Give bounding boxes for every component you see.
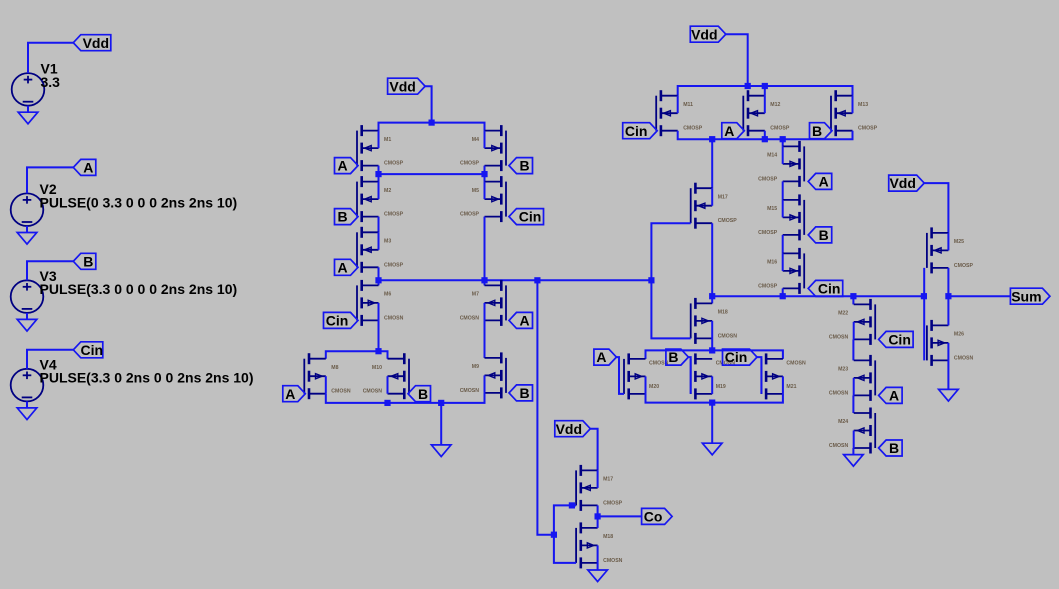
net label A: [335, 259, 359, 275]
transistor M18: [691, 298, 738, 344]
ground: [26, 226, 28, 233]
node mid m17: [709, 293, 715, 299]
svg-text:Cin: Cin: [725, 349, 748, 365]
transistor M6: [357, 280, 404, 326]
node vdd drop: [745, 83, 751, 89]
svg-text:M22: M22: [838, 311, 848, 317]
svg-text:CMOSP: CMOSP: [770, 126, 790, 132]
svg-text:M18: M18: [718, 310, 728, 316]
svg-text:B: B: [819, 227, 829, 243]
net label A: [594, 349, 617, 365]
wire trio top rail: [646, 350, 783, 359]
wire A to M20 gate: [616, 357, 624, 394]
wire lower rail: [678, 131, 853, 140]
node Vdd junction: [429, 120, 435, 126]
svg-text:M14: M14: [767, 153, 777, 159]
wire M7 source to M9: [484, 320, 486, 358]
svg-text:B: B: [889, 440, 899, 456]
svg-text:M2: M2: [384, 188, 391, 194]
transistor M7: [460, 280, 506, 326]
wire input down branch: [554, 535, 576, 563]
wire M18 drain: [711, 296, 713, 303]
net label B: [408, 386, 431, 402]
net label A: [722, 123, 745, 139]
wire right col drain: [852, 296, 854, 304]
wire M18 source: [711, 338, 713, 350]
transistor M17: [691, 183, 738, 229]
wire Vdd to M25: [924, 183, 948, 233]
svg-text:Cin: Cin: [81, 342, 104, 358]
ground: [711, 403, 713, 444]
net label Cin: [73, 342, 103, 358]
svg-text:Co: Co: [644, 509, 663, 525]
wire ground rail: [326, 393, 485, 403]
net label A: [73, 159, 96, 175]
net label B: [509, 158, 533, 174]
svg-text:CMOSP: CMOSP: [758, 176, 778, 182]
transistor M8: [304, 353, 351, 399]
net label Vdd: [388, 78, 426, 94]
svg-text:Vdd: Vdd: [889, 175, 915, 191]
svg-text:B: B: [83, 253, 93, 269]
node out left: [375, 277, 381, 283]
wire M16 drain: [782, 288, 784, 296]
svg-text:A: A: [337, 158, 347, 174]
node rail m17 drop: [709, 136, 715, 142]
node n1 left: [375, 171, 381, 177]
node rail m14: [780, 136, 786, 142]
svg-text:3.3: 3.3: [41, 74, 61, 90]
transistor M5: [460, 176, 506, 222]
wire m12 source: [764, 131, 766, 140]
ground: [440, 403, 442, 445]
svg-text:A: A: [819, 174, 829, 190]
wire M5 drain down: [484, 217, 486, 281]
svg-text:CMOSN: CMOSN: [460, 388, 480, 394]
transistor M25: [927, 227, 974, 273]
svg-text:M21: M21: [786, 384, 796, 390]
voltage source V4: [11, 369, 44, 402]
svg-text:Cin: Cin: [625, 123, 648, 139]
svg-text:B: B: [519, 158, 529, 174]
node gnd rail m10: [384, 400, 390, 406]
node input: [551, 532, 557, 538]
svg-text:Sum: Sum: [1011, 288, 1041, 304]
wire M8 M10 drain rail: [326, 351, 388, 359]
wire V1 to Vdd label: [28, 43, 73, 73]
wire M3 drain down: [378, 267, 380, 280]
node n1 right: [481, 171, 487, 177]
wire M17 drain down: [711, 223, 713, 296]
net label A: [808, 173, 832, 189]
svg-text:CMOSN: CMOSN: [603, 558, 623, 564]
svg-text:M15: M15: [767, 206, 777, 212]
net label B: [666, 349, 689, 365]
wire trio bottom rail: [646, 394, 783, 403]
svg-text:A: A: [519, 313, 529, 329]
svg-text:M10: M10: [372, 365, 382, 371]
transistor M4: [460, 125, 506, 171]
svg-text:M1: M1: [384, 137, 391, 143]
node out mid: [481, 277, 487, 283]
net label B: [808, 227, 832, 243]
svg-text:CMOSN: CMOSN: [829, 443, 849, 449]
svg-text:M26: M26: [954, 332, 964, 338]
svg-text:CMOSN: CMOSN: [384, 315, 404, 321]
node mid gates: [921, 293, 927, 299]
svg-text:CMOSP: CMOSP: [603, 500, 623, 506]
svg-text:Vdd: Vdd: [389, 78, 415, 94]
wire to Co label: [598, 515, 642, 517]
svg-text:M12: M12: [770, 102, 780, 108]
node m12 drain: [762, 83, 768, 89]
svg-text:Vdd: Vdd: [83, 35, 109, 51]
net label B: [509, 385, 533, 401]
wire M14 source: [782, 139, 784, 146]
wire rail down to M17: [711, 139, 713, 188]
net label Cin: [723, 349, 758, 365]
net label A: [283, 386, 306, 402]
svg-text:CMOSN: CMOSN: [829, 390, 849, 396]
net label B: [810, 123, 833, 139]
svg-text:M20: M20: [649, 384, 659, 390]
wire M17 gate to carry-bar: [651, 223, 690, 280]
node mid right col: [850, 293, 856, 299]
svg-text:M18: M18: [603, 534, 613, 540]
svg-text:CMOSN: CMOSN: [331, 389, 351, 395]
net label Cin: [623, 123, 658, 139]
svg-text:M6: M6: [384, 292, 391, 298]
net label A: [879, 387, 903, 403]
svg-text:M23: M23: [838, 367, 848, 373]
net label Vdd: [555, 421, 591, 437]
svg-text:CMOSN: CMOSN: [954, 355, 974, 361]
voltage source V3: [11, 280, 44, 313]
wire M18 gate from carry-bar: [651, 280, 690, 338]
svg-text:M13: M13: [858, 102, 868, 108]
transistor M18: [576, 522, 623, 568]
svg-text:CMOSN: CMOSN: [786, 360, 806, 366]
wire top rail: [678, 86, 853, 96]
wire m12 drain: [764, 86, 766, 96]
wire V3 to B label: [27, 261, 73, 280]
net label Cin: [808, 280, 843, 296]
wire top rail: [379, 123, 485, 131]
transistor M10: [363, 353, 409, 399]
svg-text:M11: M11: [683, 102, 693, 108]
svg-text:M17: M17: [718, 194, 728, 200]
svg-text:CMOSP: CMOSP: [758, 283, 778, 289]
svg-text:CMOSP: CMOSP: [758, 230, 778, 236]
svg-text:B: B: [668, 349, 678, 365]
transistor M23: [829, 355, 875, 401]
transistor M1: [357, 125, 404, 171]
svg-text:Cin: Cin: [326, 313, 349, 329]
wire Cin to M21 gate: [757, 357, 761, 394]
wire carry-bar output rail: [379, 279, 652, 281]
transistor M16: [758, 248, 804, 294]
transistor M19: [691, 353, 736, 399]
net label B: [879, 440, 903, 456]
svg-text:Vdd: Vdd: [556, 421, 582, 437]
wire V2 to A label: [27, 167, 73, 193]
svg-text:CMOSP: CMOSP: [954, 263, 974, 269]
svg-text:M3: M3: [384, 239, 391, 245]
svg-text:B: B: [337, 209, 347, 225]
wire sum-bar mid rail: [712, 295, 924, 297]
svg-text:M7: M7: [472, 292, 479, 298]
node drain rail: [375, 348, 381, 354]
node rail m12: [762, 136, 768, 142]
svg-text:M16: M16: [767, 260, 777, 266]
svg-text:Cin: Cin: [888, 332, 911, 348]
net label Vdd: [889, 175, 925, 191]
svg-text:M4: M4: [472, 137, 479, 143]
svg-text:M17: M17: [603, 477, 613, 483]
node mid m16: [780, 293, 786, 299]
net label B: [73, 253, 96, 269]
net label Vdd: [73, 35, 111, 51]
svg-text:B: B: [812, 123, 822, 139]
net label B: [335, 209, 359, 225]
ground: [852, 448, 854, 455]
net label A: [335, 158, 359, 174]
wire M6 drain: [378, 280, 380, 285]
node gate upper: [569, 502, 575, 508]
svg-text:A: A: [83, 160, 93, 176]
wire Vdd to top rail: [726, 34, 748, 86]
node out co-tap: [534, 277, 540, 283]
transistor M13: [831, 90, 878, 136]
node sum out: [945, 293, 951, 299]
node trio bottom: [709, 400, 715, 406]
wire node1 rail: [378, 166, 380, 182]
transistor M20: [624, 353, 669, 399]
net label Cin: [324, 312, 359, 328]
svg-text:CMOSP: CMOSP: [683, 126, 703, 132]
ground: [26, 313, 28, 320]
ground: [947, 360, 949, 389]
node out right: [648, 277, 654, 283]
svg-text:CMOSP: CMOSP: [460, 212, 480, 218]
transistor M21: [761, 353, 806, 399]
svg-text:M8: M8: [331, 365, 338, 371]
wire M6 source down: [378, 320, 380, 351]
svg-text:Vdd: Vdd: [691, 26, 717, 42]
svg-text:M24: M24: [838, 419, 848, 425]
transistor M2: [357, 176, 404, 222]
net label Vdd: [690, 26, 726, 42]
transistor M17: [576, 465, 623, 511]
svg-text:PULSE(3.3 0 2ns 0 0 2ns 2ns 10: PULSE(3.3 0 2ns 0 0 2ns 2ns 10): [40, 370, 254, 386]
svg-text:CMOSP: CMOSP: [384, 262, 404, 268]
wire M2 to M3: [378, 217, 380, 233]
ground: [27, 106, 29, 113]
net label Cin: [509, 209, 544, 225]
wire gates vertical: [923, 268, 925, 361]
svg-text:A: A: [724, 123, 734, 139]
wire inverter out node: [947, 268, 949, 326]
transistor M9: [460, 352, 506, 398]
svg-text:M5: M5: [472, 188, 479, 194]
wire M22-M23: [852, 339, 854, 360]
node trio top: [709, 347, 715, 353]
net label A: [509, 312, 533, 328]
transistor M11: [656, 90, 703, 136]
svg-text:A: A: [337, 259, 347, 275]
wire input up branch: [554, 505, 576, 534]
ground: [597, 563, 599, 570]
svg-text:M25: M25: [954, 239, 964, 245]
svg-text:CMOSN: CMOSN: [460, 315, 480, 321]
wire M23-M24: [852, 395, 854, 413]
net label Cin: [879, 331, 914, 347]
voltage source V1: [12, 73, 45, 106]
transistor M12: [743, 90, 790, 136]
wire M14-M15: [782, 181, 784, 200]
transistor M14: [758, 141, 804, 187]
node Co out: [595, 513, 601, 519]
svg-text:PULSE(3.3 0 0 0 0 2ns 2ns 10): PULSE(3.3 0 0 0 0 2ns 2ns 10): [40, 281, 238, 297]
net label Co: [642, 508, 673, 524]
wire M7 drain: [484, 280, 486, 285]
transistor M3: [357, 227, 404, 273]
wire V4 to Cin label: [27, 350, 73, 369]
svg-text:B: B: [519, 385, 529, 401]
svg-text:CMOSP: CMOSP: [718, 218, 738, 224]
ground: [26, 401, 28, 408]
transistor M15: [758, 194, 804, 240]
transistor M22: [829, 299, 875, 345]
svg-text:CMOSP: CMOSP: [384, 161, 404, 167]
wire M15-M16: [782, 235, 784, 254]
transistor M26: [927, 320, 974, 366]
wire carry-bar to inverter input: [537, 280, 554, 534]
wire Vdd to top rail: [425, 86, 432, 122]
svg-text:M19: M19: [716, 384, 726, 390]
svg-text:CMOSP: CMOSP: [858, 126, 878, 132]
wire to Sum label: [948, 295, 1010, 297]
svg-text:Cin: Cin: [818, 281, 841, 297]
svg-text:A: A: [285, 386, 295, 402]
transistor M24: [829, 408, 875, 454]
svg-text:A: A: [596, 349, 606, 365]
svg-text:M9: M9: [472, 364, 479, 370]
svg-text:CMOSN: CMOSN: [363, 389, 383, 395]
wire B to M19 gate: [688, 357, 690, 394]
wire Vdd to M17: [590, 429, 597, 471]
svg-text:A: A: [889, 388, 899, 404]
wire inverter output node: [597, 505, 599, 528]
node gnd rail drop: [438, 400, 444, 406]
svg-text:B: B: [418, 386, 428, 402]
svg-text:Cin: Cin: [519, 209, 542, 225]
svg-text:CMOSN: CMOSN: [829, 334, 849, 340]
voltage source V2: [11, 193, 44, 226]
svg-text:CMOSP: CMOSP: [460, 161, 480, 167]
svg-text:PULSE(0 3.3 0 0 0 2ns 2ns 10): PULSE(0 3.3 0 0 0 2ns 2ns 10): [40, 194, 238, 210]
svg-text:CMOSN: CMOSN: [718, 333, 738, 339]
svg-text:CMOSP: CMOSP: [384, 212, 404, 218]
net label Sum: [1010, 288, 1050, 304]
